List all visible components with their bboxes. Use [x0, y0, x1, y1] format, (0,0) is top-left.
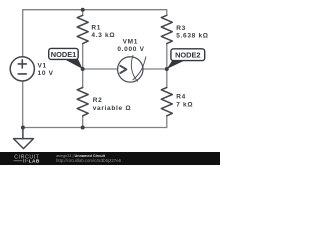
resistor R3 [161, 15, 172, 43]
logo CircuitLab [14, 155, 40, 165]
svg-text:NODE1: NODE1 [51, 50, 76, 59]
svg-text:R4: R4 [176, 94, 186, 101]
label V1 value [38, 62, 54, 77]
svg-text:NODE2: NODE2 [175, 51, 200, 60]
wire R1 branch leads [82, 10, 84, 69]
junction node dot bottom left [21, 126, 25, 130]
node flag NODE1 [49, 48, 83, 69]
voltage source V1 [10, 57, 34, 81]
resistor R1 [77, 15, 88, 43]
svg-text:4.3 kΩ: 4.3 kΩ [91, 32, 115, 39]
label VM1 value [117, 38, 144, 53]
wire bottom rail [23, 81, 167, 128]
wire top rail from V1 to right branch [23, 10, 167, 57]
wire R3/R4 branch leads [166, 44, 168, 88]
svg-text:R1: R1 [91, 25, 101, 32]
wire middle right from voltmeter to NODE2 junction [143, 68, 167, 70]
svg-text:0.000 V: 0.000 V [117, 46, 144, 53]
junction node dot NODE1 [81, 67, 85, 71]
svg-text:VM1: VM1 [123, 38, 138, 45]
label R1 value [91, 25, 115, 40]
junction node dot bottom middle [81, 126, 85, 130]
svg-text:variable Ω: variable Ω [93, 105, 132, 112]
label R3 value [176, 25, 209, 40]
label R2 value [93, 97, 132, 112]
svg-text:7 kΩ: 7 kΩ [176, 101, 193, 108]
svg-text:LAB: LAB [29, 159, 40, 165]
footer bar [0, 152, 220, 165]
svg-text:10 V: 10 V [38, 70, 54, 77]
resistor R2 [77, 88, 88, 116]
node flag NODE2 [167, 49, 205, 69]
svg-text:V1: V1 [38, 62, 47, 69]
junction node dot top [81, 8, 85, 12]
svg-text:http://circuitlab.com/c4x3b5j2: http://circuitlab.com/c4x3b5j227e6 [56, 158, 122, 163]
ground [14, 128, 34, 149]
label R4 value [176, 94, 193, 109]
junction node dot NODE2 [165, 67, 169, 71]
svg-text:asingh33 | Unnamed Circuit: asingh33 | Unnamed Circuit [56, 154, 106, 158]
footer text author and circuit name [56, 154, 122, 163]
wire R2 branch leads [82, 69, 84, 128]
svg-text:R2: R2 [93, 97, 103, 104]
wire middle left from NODE1 junction to voltmeter [83, 68, 118, 70]
svg-text:R3: R3 [176, 25, 186, 32]
voltmeter VM1 [118, 55, 146, 82]
resistor R4 [161, 88, 172, 116]
svg-text:5.638 kΩ: 5.638 kΩ [176, 33, 209, 40]
